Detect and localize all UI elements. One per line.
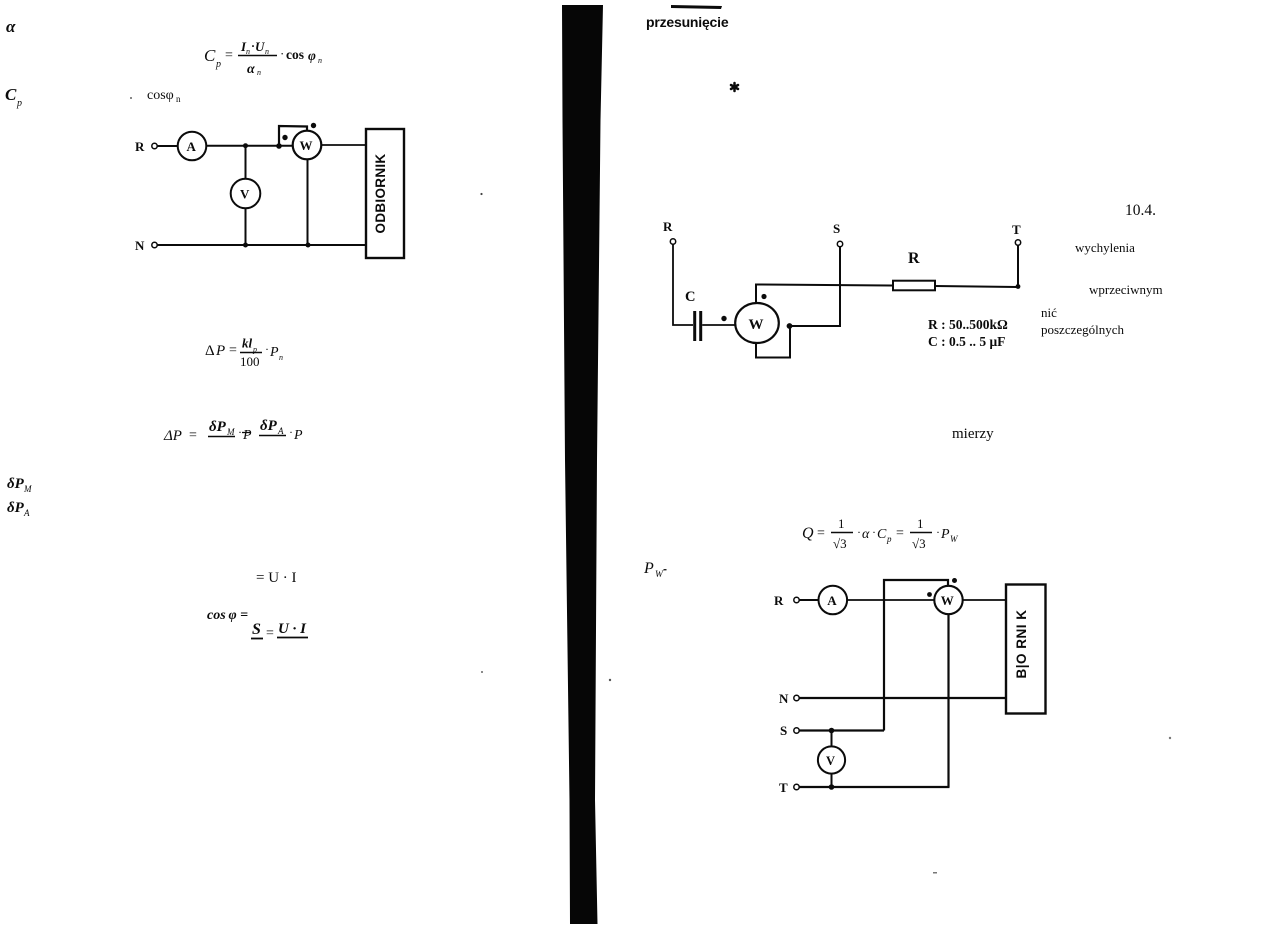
- svg-text:n: n: [176, 94, 181, 104]
- svg-text:B|O RNI K: B|O RNI K: [1014, 609, 1029, 678]
- svg-text:n: n: [279, 353, 283, 362]
- svg-text:poszczególnych: poszczególnych: [1041, 322, 1125, 337]
- svg-text:ODBIORNIK: ODBIORNIK: [373, 154, 388, 234]
- svg-text:n: n: [318, 56, 322, 65]
- svg-text:n: n: [246, 47, 250, 56]
- svg-text:1: 1: [838, 516, 845, 531]
- svg-text:·: ·: [238, 425, 242, 439]
- wire V stub bottom: [831, 774, 833, 787]
- svg-text:P: P: [940, 527, 950, 542]
- svg-text:Δ: Δ: [205, 343, 215, 359]
- svg-text:=: =: [225, 48, 233, 63]
- svg-text:cosφ: cosφ: [147, 88, 174, 103]
- svg-text:M: M: [23, 484, 32, 494]
- wattmeter W1: [293, 131, 322, 160]
- svg-text:p: p: [215, 59, 221, 70]
- svg-text:P: P: [269, 345, 279, 360]
- svg-text:=: =: [896, 526, 904, 541]
- polarity dot left of W: [927, 592, 932, 597]
- svg-text:N: N: [135, 238, 145, 253]
- svg-text:α: α: [247, 62, 255, 77]
- svg-text:W: W: [655, 570, 664, 580]
- wire resistor to T: [935, 286, 1018, 287]
- svg-text:wprzeciwnym: wprzeciwnym: [1089, 282, 1163, 297]
- wire N to load: [158, 244, 367, 246]
- svg-text:√3: √3: [912, 536, 926, 551]
- speck: [480, 193, 482, 195]
- svg-text:α: α: [862, 527, 870, 542]
- svg-text:R: R: [663, 219, 673, 234]
- stroke above heading: [671, 5, 722, 9]
- svg-text:δP: δP: [7, 500, 25, 516]
- svg-text:Q: Q: [802, 525, 814, 542]
- formula dP = klp/100 · Pn: [205, 336, 283, 370]
- svg-text:=: =: [189, 428, 197, 443]
- formula dP = dPM/ · P dPA/ · P: [163, 418, 303, 444]
- wire V stub top: [831, 731, 833, 747]
- wire A to W: [206, 145, 293, 147]
- wire R to A: [158, 145, 178, 147]
- voltage coil loop under W: [756, 328, 790, 358]
- svg-text:R : 50..500kΩ: R : 50..500kΩ: [928, 317, 1008, 332]
- speck: [481, 671, 483, 673]
- svg-text:√3: √3: [833, 536, 847, 551]
- svg-text:=: =: [817, 526, 825, 541]
- svg-text:S: S: [780, 723, 787, 738]
- wire W bottom stub: [307, 159, 309, 245]
- svg-text:W: W: [941, 593, 954, 608]
- svg-text:·: ·: [280, 46, 284, 61]
- wire T down: [1017, 245, 1019, 287]
- svg-text:V: V: [240, 187, 250, 202]
- svg-text:C: C: [877, 527, 887, 542]
- svg-text:δP: δP: [260, 418, 278, 434]
- ammeter A1: [178, 132, 207, 161]
- svg-text:cos φ =: cos φ =: [207, 608, 248, 623]
- svg-text:δP: δP: [209, 419, 227, 435]
- resistor R body: [893, 281, 935, 291]
- ammeter A2: [819, 586, 848, 615]
- wire V stub top: [245, 146, 247, 179]
- svg-text:A: A: [827, 593, 837, 608]
- svg-text:T: T: [779, 780, 788, 795]
- svg-text:T: T: [1012, 222, 1021, 237]
- junction at current coil: [276, 143, 282, 149]
- wire W right to load: [321, 144, 366, 146]
- voltage path S up over W: [884, 580, 948, 731]
- junction node: [243, 243, 248, 248]
- wire A to W: [847, 599, 934, 601]
- svg-text:=: =: [266, 626, 274, 641]
- polarity dot top right: [311, 123, 316, 128]
- svg-text:U: U: [255, 39, 265, 54]
- svg-text:nić: nić: [1041, 305, 1057, 320]
- wire top horizontal to resistor: [755, 285, 893, 286]
- svg-text:A: A: [277, 426, 284, 436]
- svg-text:n: n: [265, 47, 269, 56]
- svg-text:C: C: [685, 289, 695, 305]
- svg-text:δP: δP: [7, 476, 25, 492]
- junction node: [243, 143, 248, 148]
- svg-text:C: C: [204, 46, 216, 65]
- svg-text:P: P: [215, 343, 225, 359]
- polarity dot inside bracket: [282, 135, 287, 140]
- svg-text:mierzy: mierzy: [952, 426, 994, 442]
- formula cos phi = S/ = U·I/: [207, 608, 308, 641]
- svg-text:W: W: [749, 317, 764, 333]
- svg-text:V: V: [826, 754, 835, 768]
- capacitor C plates: [693, 311, 696, 341]
- svg-text:U · I: U · I: [278, 621, 307, 637]
- wattmeter W3: [934, 586, 962, 614]
- svg-text:przesunięcie: przesunięcie: [646, 14, 729, 30]
- junction dot at W right: [787, 323, 793, 329]
- wire S down to W right: [789, 247, 840, 326]
- speck: [130, 97, 132, 99]
- wire W top stub: [755, 284, 757, 303]
- load ODBIORNIK box: [366, 129, 404, 258]
- svg-text:10.4.: 10.4.: [1125, 202, 1156, 219]
- svg-text:100: 100: [240, 354, 260, 369]
- wire R down and to C: [673, 244, 693, 325]
- svg-text:A: A: [187, 139, 197, 154]
- voltmeter V1: [231, 179, 261, 209]
- polarity dot top right of W: [952, 578, 957, 583]
- junction dot on T wire: [829, 784, 835, 790]
- svg-text:P: P: [643, 560, 654, 577]
- svg-text:φ: φ: [308, 48, 316, 63]
- svg-text:R: R: [908, 250, 920, 267]
- svg-text:n: n: [257, 68, 261, 77]
- wire W bottom down to T level: [947, 614, 949, 787]
- junction dot T corner: [1016, 284, 1021, 289]
- current coil bracket of W1: [279, 126, 307, 146]
- svg-text:W: W: [950, 534, 959, 544]
- svg-text:p: p: [886, 534, 892, 544]
- svg-text:M: M: [226, 427, 235, 437]
- speck bottom: [933, 872, 937, 874]
- junction node: [306, 243, 311, 248]
- wire T to W bottom: [799, 786, 949, 788]
- svg-text:= U · I: = U · I: [256, 570, 297, 586]
- svg-text:R: R: [135, 139, 145, 154]
- svg-text:ΔP: ΔP: [163, 428, 182, 444]
- formula Q = 1/sqrt3 · a · Cp = 1/sqrt3 · PW: [802, 516, 959, 551]
- speck: [609, 679, 611, 681]
- svg-text:·: ·: [289, 425, 293, 439]
- svg-text:=: =: [229, 343, 237, 358]
- book spine band: [562, 5, 603, 924]
- svg-text:P: P: [293, 428, 303, 443]
- wattmeter W2: [735, 303, 779, 343]
- svg-text:·: ·: [936, 525, 940, 539]
- svg-text:C: C: [5, 85, 17, 104]
- svg-text:C : 0.5 .. 5 μF: C : 0.5 .. 5 μF: [928, 334, 1005, 349]
- svg-text:wychylenia: wychylenia: [1075, 240, 1135, 255]
- svg-text:·: ·: [265, 342, 269, 356]
- asterisk: [731, 83, 738, 91]
- wire S to voltage path: [799, 729, 884, 731]
- svg-text:S: S: [833, 221, 840, 236]
- load BIORNIK box: [1006, 585, 1046, 714]
- svg-text:A: A: [23, 508, 30, 518]
- svg-text:p: p: [252, 345, 257, 354]
- formula Cp = In·Un/an · cos phi n: [204, 39, 322, 77]
- wire N to load: [799, 697, 1006, 699]
- svg-text:p: p: [16, 98, 22, 109]
- wire V stub bottom: [245, 208, 247, 245]
- svg-text:α: α: [6, 17, 16, 36]
- speck: [1169, 737, 1171, 739]
- polarity dot above W: [761, 294, 766, 299]
- svg-text:·: ·: [872, 525, 876, 539]
- svg-text:P: P: [242, 428, 252, 443]
- junction dot on S wire: [829, 728, 835, 734]
- svg-text:cos: cos: [286, 47, 304, 62]
- svg-text:·: ·: [857, 525, 861, 539]
- svg-text:kl: kl: [242, 336, 253, 351]
- svg-text:R: R: [774, 593, 784, 608]
- wire C to W: [702, 324, 735, 326]
- polarity dot left of W: [721, 316, 726, 321]
- svg-text:1: 1: [917, 516, 924, 531]
- wire R to A: [799, 599, 818, 601]
- svg-text:S: S: [252, 621, 261, 638]
- voltmeter V2: [818, 746, 845, 773]
- svg-text:N: N: [779, 691, 789, 706]
- wire W right to load: [963, 599, 1007, 601]
- svg-text:W: W: [300, 138, 313, 153]
